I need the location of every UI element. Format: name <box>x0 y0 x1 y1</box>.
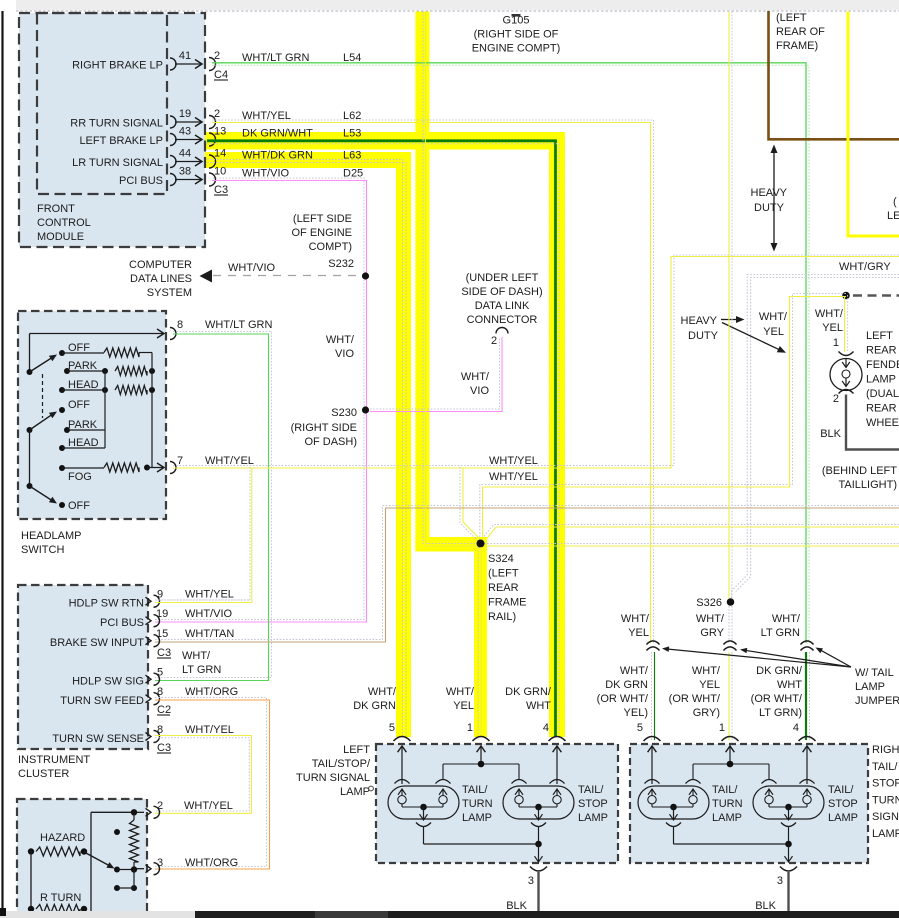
svg-text:DATA LINK: DATA LINK <box>475 300 530 312</box>
svg-text:(OR WHT/: (OR WHT/ <box>597 693 649 705</box>
wire L53 DK GRN/WHT left brake feed (highlighted) <box>207 141 556 737</box>
svg-text:TAILLIGHT): TAILLIGHT) <box>839 479 897 491</box>
hazard switch upper contact <box>114 829 120 835</box>
resistor vertical between hazard pins <box>130 820 139 862</box>
svg-text:OFF: OFF <box>68 399 90 411</box>
svg-text:HEAVY: HEAVY <box>681 315 718 327</box>
svg-text:43: 43 <box>179 126 191 138</box>
entry arrow pin 1 <box>480 747 482 764</box>
contact HEAD lower bank <box>59 445 65 451</box>
svg-text:PARK: PARK <box>68 419 98 431</box>
svg-text:19: 19 <box>179 108 191 120</box>
tail/turn bulb stadium <box>638 786 709 819</box>
wire WHT/YEL branch down into S324 <box>460 467 478 541</box>
svg-text:DATA LINES: DATA LINES <box>130 273 192 285</box>
svg-text:YEL: YEL <box>763 326 784 338</box>
svg-text:VIO: VIO <box>335 348 354 360</box>
svg-text:WHT/: WHT/ <box>620 665 649 677</box>
svg-text:TAIL/: TAIL/ <box>872 761 898 773</box>
svg-text:(BEHIND LEFT: (BEHIND LEFT <box>822 465 897 477</box>
svg-text:8: 8 <box>157 686 163 698</box>
wire BLK lamp ground <box>787 872 789 918</box>
svg-text:WHEELS): WHEELS) <box>866 417 899 429</box>
wire ground bus to G105 <box>16 10 899 12</box>
svg-text:WHT/: WHT/ <box>368 686 397 698</box>
wire L62 WHT/YEL rear turn signal feed <box>212 120 654 643</box>
svg-text:TAIL/: TAIL/ <box>578 784 604 796</box>
svg-text:WHT/VIO: WHT/VIO <box>185 608 232 620</box>
splice S326 <box>727 598 735 606</box>
hazard switch feed wire <box>91 811 134 813</box>
svg-text:9: 9 <box>157 589 163 601</box>
svg-text:COMPUTER: COMPUTER <box>129 259 192 271</box>
resistor fog <box>62 467 104 469</box>
svg-text:DK GRN: DK GRN <box>605 679 648 691</box>
hazard resistor <box>28 848 34 854</box>
lamp connector pin 5 entry <box>644 737 661 742</box>
computer data lines system arrow <box>200 270 213 283</box>
svg-text:WHT/YEL: WHT/YEL <box>185 724 234 736</box>
svg-text:GRY): GRY) <box>693 707 720 719</box>
right tail/stop/turn signal lamp box <box>630 744 868 863</box>
highlight band circuit L63 vertical <box>396 152 411 737</box>
svg-text:STOP: STOP <box>828 798 858 810</box>
wire link park/head contacts <box>104 371 106 448</box>
tail/turn bulb common <box>401 804 403 807</box>
svg-text:PCI BUS: PCI BUS <box>100 617 144 629</box>
svg-text:WHT/: WHT/ <box>461 371 490 383</box>
svg-text:(: ( <box>893 196 897 208</box>
svg-text:MODULE: MODULE <box>37 231 84 243</box>
svg-text:1: 1 <box>467 722 473 734</box>
svg-text:G105: G105 <box>503 15 530 27</box>
svg-text:HDLP SW RTN: HDLP SW RTN <box>69 598 144 610</box>
svg-text:DUTY: DUTY <box>688 330 719 342</box>
svg-text:REAR: REAR <box>488 582 519 594</box>
svg-text:GRY: GRY <box>700 627 724 639</box>
svg-text:LEFT: LEFT <box>887 210 899 222</box>
wire WHT/GRY from right to S326 <box>732 275 899 599</box>
svg-text:BLK: BLK <box>506 900 527 912</box>
svg-text:C3: C3 <box>157 742 171 754</box>
hazard switch pin 3 arrow <box>136 868 144 870</box>
svg-text:S230: S230 <box>331 407 357 419</box>
heavy duty pointer arrow diagonal <box>722 323 780 350</box>
wire WHT/YEL vertical into S324 from top (bar core) <box>423 12 477 544</box>
wire pivot link to fog switch <box>29 430 31 486</box>
svg-text:FRONT: FRONT <box>37 203 75 215</box>
front control module box outer <box>19 13 205 247</box>
svg-text:S232: S232 <box>328 258 354 270</box>
headlamp switch box <box>18 311 166 519</box>
r turn resistor <box>28 906 34 912</box>
svg-text:(OR WHT/: (OR WHT/ <box>751 693 803 705</box>
switch arm 2 <box>27 427 33 433</box>
svg-text:REAR: REAR <box>866 345 897 357</box>
splice S324 <box>477 540 485 548</box>
svg-text:FRAME): FRAME) <box>776 40 818 52</box>
svg-text:14: 14 <box>214 148 226 160</box>
svg-text:WHT/ORG: WHT/ORG <box>185 686 238 698</box>
inline connector middle <box>724 641 737 645</box>
svg-text:WHT/YEL: WHT/YEL <box>489 471 538 483</box>
svg-text:WHT/: WHT/ <box>446 686 475 698</box>
svg-text:WHT/GRY: WHT/GRY <box>839 261 891 273</box>
svg-text:LAMP: LAMP <box>712 812 742 824</box>
svg-text:TAIL/: TAIL/ <box>462 784 488 796</box>
tail/stop bulb filament entries <box>762 780 777 784</box>
svg-text:TURN: TURN <box>872 794 899 806</box>
svg-text:TURN SW SENSE: TURN SW SENSE <box>52 733 144 745</box>
svg-text:LT GRN: LT GRN <box>182 664 221 676</box>
svg-text:WHT/YEL: WHT/YEL <box>185 589 234 601</box>
svg-text:WHT/: WHT/ <box>759 311 788 323</box>
svg-text:R TURN: R TURN <box>40 892 81 904</box>
headlamp switch pin 8 output wire and arrow <box>30 333 164 335</box>
svg-text:REAR OF: REAR OF <box>776 26 825 38</box>
left tail/stop/turn signal lamp box <box>376 744 618 863</box>
svg-text:STOP/: STOP/ <box>872 778 899 790</box>
entry arrow pin 5 <box>651 747 653 784</box>
wire YEL heavy duty <box>848 12 899 237</box>
svg-text:8: 8 <box>177 319 183 331</box>
tail/turn bulb filaments <box>401 789 403 796</box>
svg-text:HDLP SW SIG: HDLP SW SIG <box>72 676 144 688</box>
svg-text:YEL): YEL) <box>624 707 648 719</box>
tail/stop bulb filament entries <box>512 780 527 784</box>
svg-text:SIGNAL: SIGNAL <box>872 811 899 823</box>
wire L63 WHT/DK GRN LR turn signal (highlighted) <box>207 160 403 738</box>
svg-text:OF DASH): OF DASH) <box>304 436 357 448</box>
svg-text:HEAD: HEAD <box>68 437 99 449</box>
svg-text:WHT/: WHT/ <box>621 613 650 625</box>
marker circle next to left lamp box <box>369 786 374 791</box>
tail/turn bulb filament entries <box>395 780 410 784</box>
hazard / turn signal switch box <box>17 799 147 918</box>
right rail of headlamp switch <box>151 353 153 468</box>
svg-text:RR TURN SIGNAL: RR TURN SIGNAL <box>70 118 163 130</box>
svg-text:LAMP: LAMP <box>340 786 370 798</box>
tail/turn bulb stadium <box>388 786 459 819</box>
svg-text:LEFT: LEFT <box>866 330 893 342</box>
svg-text:PARK: PARK <box>68 360 98 372</box>
svg-text:BLK: BLK <box>820 428 841 440</box>
wire WHT/YEL turn switch sense to hazard pin 2 <box>155 738 249 811</box>
hazard resistor bus <box>30 852 32 912</box>
svg-text:2: 2 <box>214 108 220 120</box>
svg-text:WHT/VIO: WHT/VIO <box>228 262 275 274</box>
svg-text:OF ENGINE: OF ENGINE <box>291 227 352 239</box>
contact PARK upper <box>64 368 70 374</box>
svg-text:8: 8 <box>157 724 163 736</box>
lamp connector pin 1 entry <box>722 737 739 742</box>
svg-text:S324: S324 <box>488 553 514 565</box>
ground symbol G105 <box>512 14 521 17</box>
wire L54 WHT/LT GRN right brake lamp feed <box>212 63 806 643</box>
svg-text:HEAVY: HEAVY <box>751 187 788 199</box>
svg-text:OFF: OFF <box>68 342 90 354</box>
svg-text:REAR: REAR <box>866 403 897 415</box>
ground join wire inside lamp <box>424 843 539 845</box>
svg-text:3: 3 <box>777 875 783 887</box>
hazard switch lower contact wire <box>114 867 120 873</box>
svg-text:4: 4 <box>793 722 799 734</box>
contact OFF lower bank <box>59 407 65 413</box>
svg-text:YEL: YEL <box>822 322 843 334</box>
svg-text:C3: C3 <box>157 647 171 659</box>
svg-text:HAZARD: HAZARD <box>40 832 85 844</box>
tail/stop bulb stadium <box>753 786 824 819</box>
svg-text:SIDE OF DASH): SIDE OF DASH) <box>461 286 542 298</box>
svg-text:19: 19 <box>156 608 168 620</box>
svg-text:S326: S326 <box>696 597 722 609</box>
front control module box inner connector section <box>37 13 167 194</box>
tail feed branch wire <box>443 763 519 765</box>
svg-text:LEFT BRAKE LP: LEFT BRAKE LP <box>79 135 163 147</box>
svg-text:(LEFT: (LEFT <box>776 12 807 24</box>
svg-text:(RIGHT SIDE: (RIGHT SIDE <box>291 422 357 434</box>
svg-text:HEADLAMP: HEADLAMP <box>21 530 82 542</box>
svg-text:13: 13 <box>214 126 226 138</box>
svg-text:L62: L62 <box>343 110 361 122</box>
svg-text:W/ TAIL: W/ TAIL <box>855 667 894 679</box>
svg-text:YEL: YEL <box>628 627 649 639</box>
svg-text:CONNECTOR: CONNECTOR <box>467 314 538 326</box>
svg-text:STOP: STOP <box>578 798 608 810</box>
svg-text:WHT/TAN: WHT/TAN <box>185 628 234 640</box>
svg-text:WHT/: WHT/ <box>772 613 801 625</box>
tail/stop bulb common <box>518 804 520 807</box>
svg-text:LT GRN): LT GRN) <box>759 707 802 719</box>
entry arrow pin 4 <box>806 747 808 784</box>
svg-text:2: 2 <box>491 335 497 347</box>
jumper arrow to right connector <box>820 650 851 667</box>
svg-text:C2: C2 <box>157 704 171 716</box>
svg-text:(UNDER LEFT: (UNDER LEFT <box>466 272 539 284</box>
ground join wire inside lamp <box>674 843 789 845</box>
highlight band WHT/YEL vertical to S324 <box>415 12 429 552</box>
svg-text:WHT/YEL: WHT/YEL <box>184 800 233 812</box>
svg-text:2: 2 <box>157 800 163 812</box>
bottom bar dark <box>195 911 899 918</box>
svg-text:TURN SIGNAL: TURN SIGNAL <box>296 772 370 784</box>
svg-text:(LEFT SIDE: (LEFT SIDE <box>293 213 352 225</box>
contact lead head lower <box>62 447 105 449</box>
svg-text:PCI BUS: PCI BUS <box>119 175 163 187</box>
twisted pair data line to computer data lines system <box>213 275 362 277</box>
highlight band S324 to left lamp pin 1 <box>474 537 487 737</box>
wire WHT/YEL from dot to S324 via left loop <box>480 294 846 541</box>
svg-text:L53: L53 <box>343 128 361 140</box>
inline connector left (tail lamp jumper) <box>647 641 660 645</box>
wire BLK lamp ground <box>537 872 539 918</box>
svg-text:(DUAL: (DUAL <box>866 388 899 400</box>
svg-text:RIGHT: RIGHT <box>872 744 899 756</box>
entry arrow pin 5 <box>401 747 403 784</box>
svg-text:2: 2 <box>833 393 839 405</box>
svg-text:TAIL/: TAIL/ <box>712 784 738 796</box>
data link connector pin 2 arc <box>496 328 508 334</box>
svg-text:WHT/: WHT/ <box>182 650 211 662</box>
svg-text:YEL: YEL <box>453 700 474 712</box>
tail/turn bulb common <box>651 804 653 807</box>
svg-text:DUTY: DUTY <box>754 202 785 214</box>
svg-text:FOG: FOG <box>68 471 92 483</box>
svg-text:(RIGHT SIDE OF: (RIGHT SIDE OF <box>474 29 559 41</box>
svg-text:WHT/ORG: WHT/ORG <box>185 857 238 869</box>
wire WHT/TAN brake switch to cluster <box>155 506 899 640</box>
svg-text:WHT/YEL: WHT/YEL <box>489 455 538 467</box>
hazard switch arm <box>84 852 110 866</box>
svg-text:ENGINE COMPT): ENGINE COMPT) <box>472 43 561 55</box>
jumper arrow to middle connector <box>745 650 851 667</box>
svg-text:41: 41 <box>179 50 191 62</box>
svg-text:4: 4 <box>543 722 549 734</box>
svg-text:OFF: OFF <box>68 500 90 512</box>
wire from S324 down to left lamp pin 1 <box>477 547 479 737</box>
lamp connector pin 5 entry <box>394 737 411 742</box>
dashed continuation wire <box>853 294 899 296</box>
svg-text:44: 44 <box>179 148 191 160</box>
svg-text:SWITCH: SWITCH <box>21 544 64 556</box>
svg-text:LAMP: LAMP <box>872 828 899 840</box>
wire WHT/YEL branch down to cluster HDLP SW RTN <box>155 467 250 600</box>
tail/turn bulb filaments <box>651 789 653 796</box>
contact OFF upper <box>59 350 65 356</box>
svg-text:LAMP: LAMP <box>855 681 885 693</box>
svg-text:TAIL/STOP/: TAIL/STOP/ <box>312 758 371 770</box>
svg-text:CLUSTER: CLUSTER <box>18 768 69 780</box>
svg-text:TAIL/: TAIL/ <box>828 784 854 796</box>
svg-text:15: 15 <box>156 628 168 640</box>
wire WHT/LT GRN headlamp sw pin 8 to cluster HDLP SW SIG <box>155 332 272 678</box>
svg-text:RAIL): RAIL) <box>488 611 516 623</box>
svg-text:WHT/: WHT/ <box>696 613 725 625</box>
svg-text:YEL: YEL <box>699 679 720 691</box>
fender lamp pin 2 connector arc <box>839 390 854 394</box>
svg-text:LAMP: LAMP <box>462 812 492 824</box>
switch pivot 1 <box>29 334 31 373</box>
svg-text:WHT: WHT <box>777 679 802 691</box>
contact PARK lower bank <box>64 427 70 433</box>
splice S232 <box>362 272 369 279</box>
lamp connector pin 4 entry <box>799 737 816 742</box>
svg-text:5: 5 <box>637 722 643 734</box>
headlamp switch pin 7 arrow <box>147 467 163 469</box>
lamp ground connector pin 3 <box>780 867 797 872</box>
heavy duty range arrow vertical <box>773 151 775 245</box>
resistor park/off upper <box>62 352 104 354</box>
splice S230 <box>362 406 369 413</box>
switch arm 1 <box>30 358 53 372</box>
entry arrow pin 4 <box>556 747 558 784</box>
wire D25 WHT/VIO PCI bus from FCM to S232 to S230 to cluster <box>155 178 364 620</box>
wire WHT/YEL cluster pin 9 (from headlamp sw pin 7) <box>155 599 250 601</box>
svg-text:VIO: VIO <box>470 385 489 397</box>
tail/turn bulb filament entries <box>645 780 660 784</box>
svg-text:LR TURN SIGNAL: LR TURN SIGNAL <box>72 157 163 169</box>
bottom scrollbar light section <box>0 911 195 918</box>
svg-text:2: 2 <box>214 50 220 62</box>
splice dot on WHT/YEL with dashed continuation <box>842 292 850 300</box>
resistor head upper <box>62 389 105 391</box>
contact OFF fog bank <box>59 502 65 508</box>
svg-text:WHT: WHT <box>526 700 551 712</box>
svg-text:HEAD: HEAD <box>68 379 99 391</box>
entry arrow pin 1 <box>729 747 731 764</box>
svg-text:INSTRUMENT: INSTRUMENT <box>18 754 90 766</box>
svg-text:3: 3 <box>157 857 163 869</box>
svg-text:FENDER: FENDER <box>866 359 899 371</box>
highlight band circuit L63 horizontal <box>204 152 411 168</box>
tail/stop bulb filaments <box>768 789 770 796</box>
svg-text:WHT/LT GRN: WHT/LT GRN <box>205 319 272 331</box>
svg-text:(LEFT: (LEFT <box>488 568 519 580</box>
heavy duty pointer arrow horizontal <box>721 319 737 321</box>
svg-text:LAMP: LAMP <box>866 374 896 386</box>
contact HEAD upper <box>59 387 65 393</box>
inline connector right <box>801 641 814 645</box>
wire WHT/GRY from S326 down to connector <box>728 606 730 643</box>
wire WHT/YEL vertical to S326 <box>728 12 730 599</box>
wire BLK from fender lamp <box>846 395 899 450</box>
bulb left rear fender lamp <box>830 359 862 391</box>
svg-text:SYSTEM: SYSTEM <box>147 287 192 299</box>
svg-text:JUMPER: JUMPER <box>855 695 899 707</box>
contact FOG <box>59 465 65 471</box>
switch arm 3 fog <box>27 483 33 489</box>
svg-text:5: 5 <box>389 722 395 734</box>
instrument cluster box <box>18 585 148 749</box>
hazard switch internal bus left <box>90 812 92 911</box>
tail feed branch wire <box>693 763 769 765</box>
lamp connector pin 4 entry <box>549 737 566 742</box>
svg-text:RIGHT BRAKE LP: RIGHT BRAKE LP <box>72 60 163 72</box>
svg-text:FRAME: FRAME <box>488 597 527 609</box>
top page strip <box>16 0 899 10</box>
wire WHT/YEL S324 feeder upper <box>483 525 899 538</box>
tail/stop bulb filaments <box>518 789 520 796</box>
svg-text:(OR WHT/: (OR WHT/ <box>669 693 721 705</box>
svg-text:1: 1 <box>833 337 839 349</box>
ganged switch dashed link <box>42 374 44 418</box>
svg-text:DK GRN/: DK GRN/ <box>756 665 803 677</box>
highlight band WHT/YEL elbow into S324 <box>415 537 480 552</box>
wire BRN heavy duty battery feed <box>769 11 899 139</box>
svg-text:10: 10 <box>214 166 226 178</box>
wire WHT/YEL tail lamp feed horizontal <box>173 255 899 466</box>
fender lamp pin 1 connector arc <box>839 352 854 356</box>
svg-text:TURN: TURN <box>712 798 743 810</box>
tail/stop bulb common <box>768 804 770 807</box>
wire WHT/YEL from S324 to right side <box>484 543 899 545</box>
svg-text:TURN: TURN <box>462 798 493 810</box>
left page border line <box>1 11 3 916</box>
hazard switch pin 2 arrow <box>136 811 144 813</box>
svg-text:TURN SW FEED: TURN SW FEED <box>60 695 144 707</box>
wire WHT/VIO from S230 to data link connector <box>370 337 500 409</box>
svg-text:CONTROL: CONTROL <box>37 217 91 229</box>
jumper arrow to left connector <box>667 649 851 667</box>
svg-text:LEFT: LEFT <box>343 744 370 756</box>
svg-text:DK GRN/: DK GRN/ <box>505 686 552 698</box>
wire WHT/YEL down to left rear fender lamp <box>844 297 846 352</box>
highlight band circuit L53 vertical <box>549 132 565 737</box>
resistor park upper <box>67 370 105 372</box>
svg-text:DK GRN/WHT: DK GRN/WHT <box>242 128 313 140</box>
wire WHT/YEL below middle connector <box>728 652 730 740</box>
contact lead park lower <box>67 429 105 431</box>
